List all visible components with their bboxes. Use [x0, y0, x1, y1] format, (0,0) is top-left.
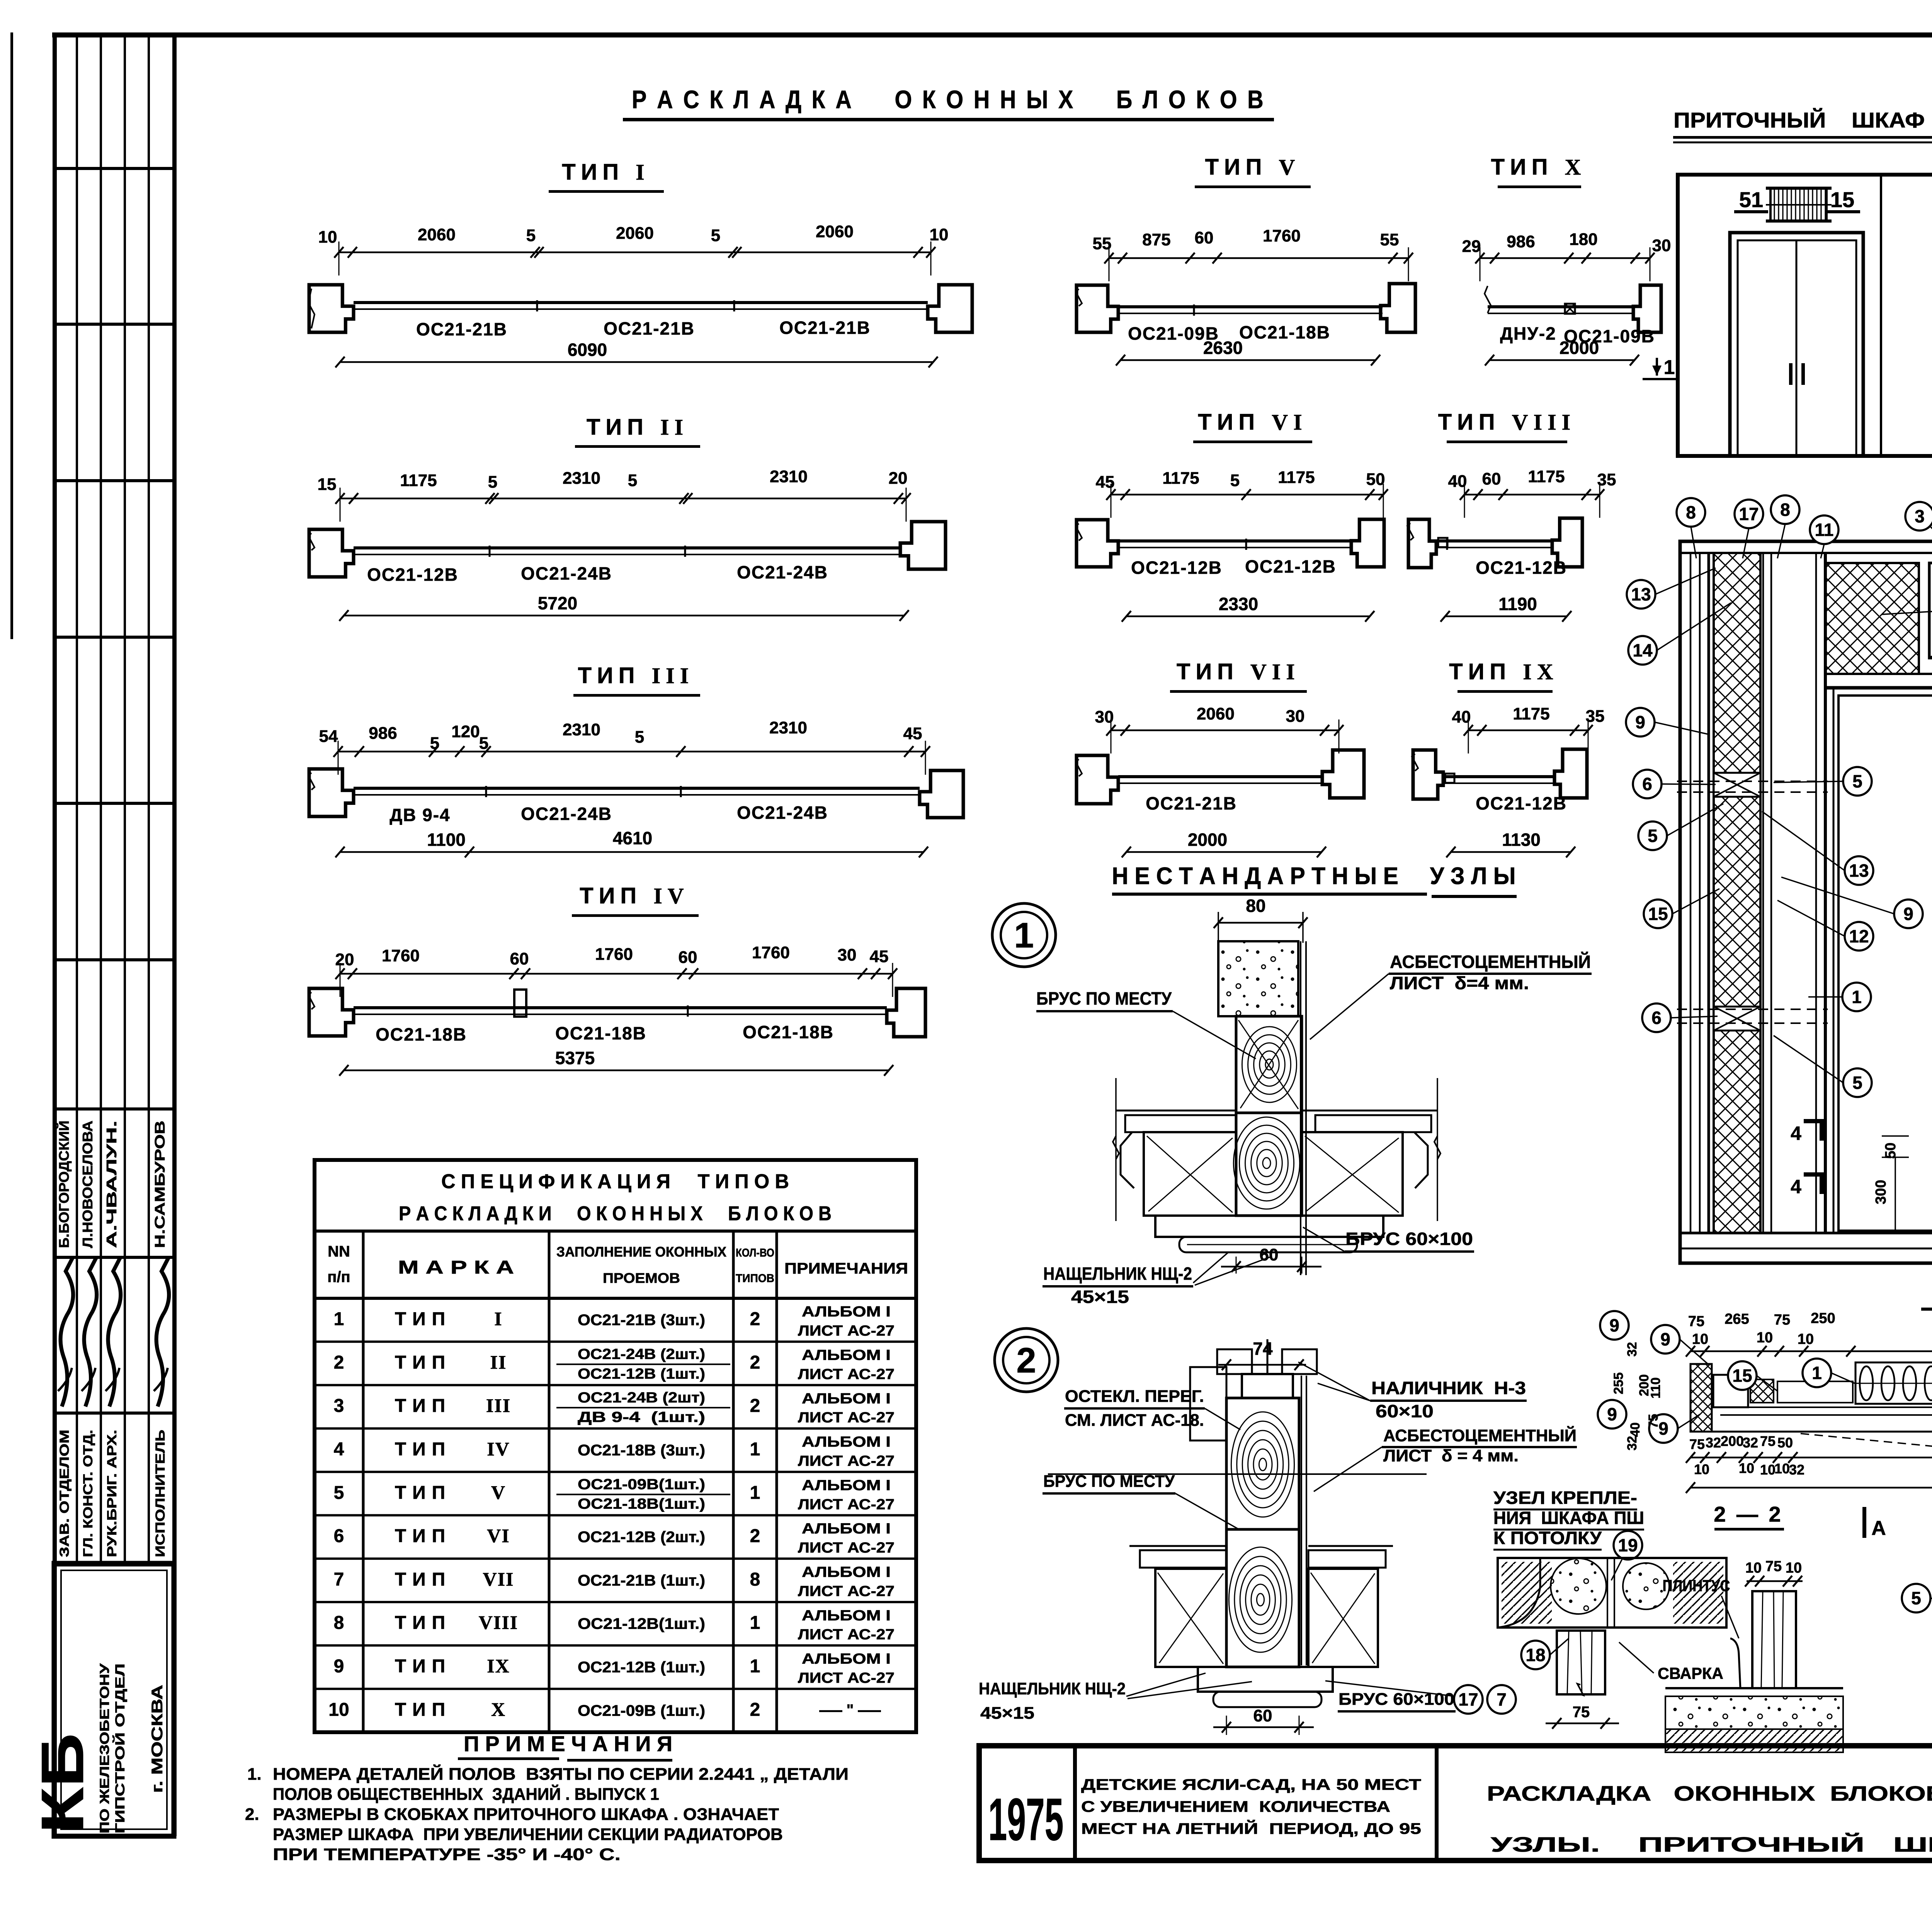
svg-text:ТИП: ТИП [395, 1699, 451, 1720]
svg-text:45: 45 [903, 724, 922, 743]
svg-text:ГЛ. КОНСТ. ОТД.: ГЛ. КОНСТ. ОТД. [81, 1430, 95, 1557]
svg-text:ОС21-18В: ОС21-18В [555, 1023, 646, 1043]
svg-text:10: 10 [1798, 1331, 1814, 1347]
svg-text:ОС21-21В: ОС21-21В [779, 318, 871, 338]
svg-text:ЛИСТ АС-27: ЛИСТ АС-27 [798, 1540, 895, 1556]
svg-text:13: 13 [1631, 584, 1651, 604]
svg-text:ТИП: ТИП [395, 1483, 451, 1503]
svg-text:НАЩЕЛЬНИК НЩ-2: НАЩЕЛЬНИК НЩ-2 [979, 1679, 1126, 1698]
svg-text:БРУС ПО МЕСТУ: БРУС ПО МЕСТУ [1036, 988, 1172, 1009]
svg-text:1975: 1975 [988, 1786, 1064, 1853]
svg-text:5: 5 [479, 734, 488, 753]
svg-text:5: 5 [334, 1483, 344, 1503]
svg-text:ЛИСТ АС-27: ЛИСТ АС-27 [798, 1323, 895, 1339]
svg-text:875: 875 [1142, 230, 1170, 249]
svg-text:2: 2 [750, 1699, 760, 1720]
svg-text:АЛЬБОМ I: АЛЬБОМ I [802, 1434, 891, 1450]
svg-text:ОС21-21В: ОС21-21В [604, 318, 695, 338]
svg-text:5: 5 [1648, 826, 1658, 846]
svg-text:ОС21-18В: ОС21-18В [376, 1024, 467, 1044]
svg-text:10: 10 [1745, 1560, 1762, 1576]
svg-text:ТИП: ТИП [395, 1569, 451, 1590]
svg-text:ОС21-24В (2шт.): ОС21-24В (2шт.) [578, 1346, 705, 1362]
svg-text:10: 10 [930, 225, 949, 244]
svg-text:54: 54 [319, 727, 338, 746]
svg-text:1.: 1. [247, 1765, 262, 1784]
svg-text:29: 29 [1462, 237, 1481, 256]
svg-text:1100: 1100 [427, 830, 466, 850]
svg-text:1760: 1760 [1263, 226, 1301, 245]
svg-text:ТИП: ТИП [395, 1613, 451, 1633]
svg-text:30: 30 [838, 946, 857, 964]
svg-text:VI: VI [487, 1525, 510, 1546]
svg-text:ЗАПОЛНЕНИЕ ОКОННЫХ: ЗАПОЛНЕНИЕ ОКОННЫХ [556, 1244, 726, 1260]
svg-text:986: 986 [1507, 232, 1535, 251]
svg-text:32: 32 [1625, 1342, 1639, 1357]
svg-text:1760: 1760 [752, 943, 790, 962]
svg-text:17: 17 [1458, 1689, 1478, 1709]
svg-text:ОСТЕКЛ. ПЕРЕГ.: ОСТЕКЛ. ПЕРЕГ. [1065, 1387, 1204, 1406]
svg-text:БРУС 60×100: БРУС 60×100 [1338, 1690, 1454, 1709]
svg-text:2: 2 [750, 1526, 760, 1546]
svg-text:ТИП VI: ТИП VI [1198, 410, 1307, 435]
svg-text:ТИП: ТИП [395, 1526, 451, 1546]
svg-text:1175: 1175 [1278, 468, 1315, 487]
svg-text:IX: IX [487, 1655, 510, 1677]
svg-text:110: 110 [1648, 1378, 1663, 1399]
svg-text:АСБЕСТОЦЕМЕНТНЫЙ: АСБЕСТОЦЕМЕНТНЫЙ [1383, 1425, 1577, 1445]
svg-text:120: 120 [451, 722, 480, 741]
svg-text:10: 10 [1692, 1331, 1708, 1347]
svg-text:1130: 1130 [1502, 830, 1541, 850]
svg-text:ЛИСТ АС-27: ЛИСТ АС-27 [798, 1583, 895, 1599]
svg-text:12: 12 [1849, 926, 1869, 946]
svg-text:1: 1 [750, 1439, 760, 1460]
svg-text:ТИП III: ТИП III [578, 663, 694, 688]
svg-text:ИСПОЛНИТЕЛЬ: ИСПОЛНИТЕЛЬ [153, 1430, 168, 1557]
svg-text:УЗЕЛ КРЕПЛЕ-: УЗЕЛ КРЕПЛЕ- [1493, 1488, 1637, 1508]
svg-text:ОС21-09В (1шт.): ОС21-09В (1шт.) [578, 1702, 705, 1719]
svg-text:ТИП X: ТИП X [1491, 155, 1587, 180]
svg-text:1190: 1190 [1498, 594, 1537, 614]
svg-text:АЛЬБОМ I: АЛЬБОМ I [802, 1477, 891, 1493]
svg-text:265: 265 [1725, 1311, 1749, 1327]
svg-text:ЛИСТ δ=4 мм.: ЛИСТ δ=4 мм. [1390, 973, 1529, 993]
svg-text:15: 15 [318, 475, 337, 494]
svg-text:17: 17 [1739, 504, 1759, 524]
svg-text:ДВ 9-4 (1шт.): ДВ 9-4 (1шт.) [578, 1409, 705, 1425]
svg-text:45×15: 45×15 [1071, 1287, 1129, 1307]
svg-text:3: 3 [334, 1396, 344, 1416]
svg-text:5: 5 [711, 226, 720, 245]
svg-text:74: 74 [1253, 1338, 1273, 1359]
svg-text:2330: 2330 [1219, 594, 1258, 614]
svg-text:ТИПОВ: ТИПОВ [736, 1272, 774, 1285]
svg-text:255: 255 [1611, 1372, 1626, 1395]
svg-text:5720: 5720 [538, 593, 577, 613]
svg-text:30: 30 [1652, 236, 1671, 255]
svg-text:10: 10 [1739, 1460, 1754, 1476]
svg-text:Б.БОГОРОДСКИЙ: Б.БОГОРОДСКИЙ [56, 1121, 72, 1248]
svg-text:2000: 2000 [1560, 338, 1599, 358]
svg-text:8: 8 [334, 1613, 344, 1633]
svg-text:2310: 2310 [770, 467, 808, 486]
svg-text:15: 15 [1648, 904, 1668, 924]
svg-text:5375: 5375 [555, 1048, 595, 1068]
svg-text:10: 10 [1694, 1461, 1709, 1477]
svg-text:2630: 2630 [1203, 338, 1243, 358]
svg-text:10: 10 [1786, 1560, 1802, 1576]
svg-text:V: V [491, 1481, 506, 1503]
svg-text:М А Р К А: М А Р К А [398, 1257, 514, 1278]
svg-text:1760: 1760 [382, 946, 420, 965]
svg-text:АЛЬБОМ I: АЛЬБОМ I [802, 1347, 891, 1363]
svg-text:1175: 1175 [400, 471, 437, 490]
svg-text:6: 6 [1651, 1008, 1662, 1028]
svg-text:ТИП: ТИП [395, 1396, 451, 1416]
svg-text:6: 6 [1642, 774, 1652, 794]
svg-text:NN: NN [328, 1243, 350, 1260]
svg-text:9: 9 [334, 1656, 344, 1677]
svg-text:Р А С К Л А Д К И О К О Н: Р А С К Л А Д К И О К О Н Н Ы Х Б Л О К … [399, 1202, 832, 1225]
svg-text:ОС21-21В: ОС21-21В [1146, 793, 1237, 813]
svg-text:200: 200 [1721, 1433, 1744, 1449]
svg-text:32: 32 [1789, 1462, 1804, 1478]
svg-text:5: 5 [1230, 471, 1240, 490]
svg-text:ОС21-09В(1шт.): ОС21-09В(1шт.) [578, 1476, 705, 1493]
svg-text:8: 8 [1780, 500, 1790, 520]
svg-text:1175: 1175 [1162, 469, 1199, 488]
svg-text:РАЗМЕР ШКАФА ПРИ УВЕЛИЧЕНИИ С: РАЗМЕР ШКАФА ПРИ УВЕЛИЧЕНИИ СЕКЦИИ РАДИА… [273, 1825, 783, 1844]
svg-text:50: 50 [1777, 1435, 1793, 1451]
svg-text:ОС21-18В (3шт.): ОС21-18В (3шт.) [578, 1442, 705, 1459]
svg-text:МЕСТ НА ЛЕТНИЙ ПЕРИОД, ДО 95: МЕСТ НА ЛЕТНИЙ ПЕРИОД, ДО 95 [1081, 1820, 1421, 1837]
svg-text:ДЕТСКИЕ ЯСЛИ-САД, НА 50 МЕСТ: ДЕТСКИЕ ЯСЛИ-САД, НА 50 МЕСТ [1081, 1776, 1421, 1793]
svg-text:ОС21-12В (1шт.): ОС21-12В (1шт.) [578, 1659, 705, 1676]
svg-text:75: 75 [1646, 1414, 1661, 1429]
svg-text:ОС21-12В(1шт.): ОС21-12В(1шт.) [578, 1616, 705, 1633]
svg-text:А: А [1871, 1517, 1886, 1539]
svg-text:6: 6 [334, 1526, 344, 1546]
svg-text:10: 10 [318, 228, 337, 247]
svg-text:9: 9 [1635, 712, 1645, 732]
svg-text:30: 30 [1286, 707, 1305, 726]
svg-text:ʺ: ʺ [847, 1701, 854, 1718]
svg-text:I: I [494, 1308, 502, 1330]
svg-text:5: 5 [1852, 1073, 1862, 1093]
svg-text:4: 4 [1791, 1122, 1801, 1144]
svg-text:986: 986 [369, 724, 397, 743]
svg-text:ТИП II: ТИП II [587, 415, 689, 440]
svg-text:10: 10 [1760, 1462, 1776, 1478]
svg-text:ОС21-24В: ОС21-24В [737, 803, 828, 823]
svg-text:2: 2 [1016, 1341, 1036, 1380]
svg-text:Н.САМБУРОВ: Н.САМБУРОВ [152, 1121, 168, 1248]
svg-text:III: III [486, 1395, 511, 1416]
svg-text:ДВ 9-4: ДВ 9-4 [389, 805, 450, 825]
svg-text:ГИПСТРОЙ ОТДЕЛ: ГИПСТРОЙ ОТДЕЛ [112, 1663, 128, 1833]
svg-text:ПРИ ТЕМПЕРАТУРЕ -35° И -40° С.: ПРИ ТЕМПЕРАТУРЕ -35° И -40° С. [273, 1845, 621, 1864]
svg-text:13: 13 [1849, 861, 1869, 881]
svg-text:ЛИСТ АС-27: ЛИСТ АС-27 [798, 1366, 895, 1383]
svg-text:НОМЕРА ДЕТАЛЕЙ ПОЛОВ ВЗЯТЫ ПО: НОМЕРА ДЕТАЛЕЙ ПОЛОВ ВЗЯТЫ ПО СЕРИИ 2.24… [273, 1764, 849, 1784]
svg-text:А.ЧВАЛУН.: А.ЧВАЛУН. [104, 1121, 119, 1248]
svg-text:8: 8 [1686, 502, 1696, 522]
svg-text:ТИП VIII: ТИП VIII [1438, 410, 1576, 435]
svg-text:1: 1 [334, 1309, 344, 1330]
svg-text:5: 5 [635, 728, 644, 747]
svg-text:ТИП: ТИП [395, 1656, 451, 1677]
svg-text:300: 300 [1873, 1180, 1889, 1204]
svg-text:75: 75 [1573, 1704, 1590, 1721]
svg-text:РАСКЛАДКА ОКОННЫХ БЛОКОВ.: РАСКЛАДКА ОКОННЫХ БЛОКОВ. НЕСТАНДАРТНЫЕ [1487, 1782, 1932, 1805]
svg-text:45: 45 [1096, 473, 1115, 492]
svg-text:ОС21-24В: ОС21-24В [521, 563, 612, 583]
svg-text:10: 10 [1774, 1461, 1790, 1476]
svg-text:8: 8 [750, 1569, 760, 1590]
svg-text:2060: 2060 [418, 225, 456, 244]
svg-text:1: 1 [750, 1656, 760, 1677]
svg-text:НАЛИЧНИК Н-3: НАЛИЧНИК Н-3 [1371, 1378, 1526, 1398]
svg-text:ОС21-12В: ОС21-12В [1476, 558, 1567, 578]
svg-text:5: 5 [628, 471, 637, 490]
svg-text:ОС21-12В (1шт.): ОС21-12В (1шт.) [578, 1366, 705, 1382]
svg-text:ТИП IV: ТИП IV [580, 883, 689, 908]
svg-text:2310: 2310 [563, 469, 600, 488]
svg-text:32: 32 [1743, 1435, 1758, 1451]
svg-text:60: 60 [510, 949, 529, 968]
svg-text:ОС21-12В: ОС21-12В [1245, 556, 1336, 577]
svg-text:С УВЕЛИЧЕНИЕМ КОЛИЧЕСТВА: С УВЕЛИЧЕНИЕМ КОЛИЧЕСТВА [1081, 1798, 1390, 1815]
svg-text:2: 2 [750, 1352, 760, 1373]
svg-text:П Р И М Е Ч А Н И Я: П Р И М Е Ч А Н И Я [464, 1731, 672, 1756]
svg-text:ПО ЖЕЛЕЗОБЕТОНУ: ПО ЖЕЛЕЗОБЕТОНУ [97, 1663, 112, 1833]
svg-text:ЗАВ. ОТДЕЛОМ: ЗАВ. ОТДЕЛОМ [57, 1430, 72, 1557]
svg-text:ОС21-12В: ОС21-12В [1476, 793, 1567, 813]
svg-text:ПРИТОЧНЫЙ ШКАФ ПШ: ПРИТОЧНЫЙ ШКАФ ПШ [1673, 108, 1932, 132]
svg-text:5: 5 [488, 473, 497, 492]
svg-text:ЛИСТ АС-27: ЛИСТ АС-27 [798, 1670, 895, 1686]
svg-text:ОС21-21В (3шт.): ОС21-21В (3шт.) [578, 1312, 705, 1329]
svg-text:НАЩЕЛЬНИК НЩ-2: НАЩЕЛЬНИК НЩ-2 [1043, 1264, 1192, 1284]
svg-text:11: 11 [1815, 520, 1834, 540]
svg-text:п/п: п/п [327, 1269, 350, 1286]
svg-text:180: 180 [1569, 230, 1597, 249]
svg-text:60: 60 [1195, 228, 1214, 247]
svg-text:15: 15 [1732, 1366, 1752, 1386]
svg-text:АЛЬБОМ I: АЛЬБОМ I [802, 1564, 891, 1580]
svg-text:1: 1 [750, 1613, 760, 1633]
svg-text:9: 9 [1609, 1315, 1619, 1335]
svg-text:9: 9 [1903, 904, 1913, 924]
svg-text:г. МОСКВА: г. МОСКВА [149, 1685, 166, 1793]
svg-text:2310: 2310 [563, 720, 600, 739]
svg-text:ОС21-21В (1шт.): ОС21-21В (1шт.) [578, 1572, 705, 1589]
svg-text:5: 5 [430, 734, 439, 753]
svg-text:80: 80 [1246, 896, 1265, 916]
svg-text:32: 32 [1706, 1435, 1721, 1451]
svg-text:IV: IV [487, 1438, 510, 1460]
svg-text:VIII: VIII [479, 1612, 518, 1633]
svg-text:К ПОТОЛКУ: К ПОТОЛКУ [1493, 1528, 1602, 1548]
svg-text:50: 50 [1883, 1143, 1899, 1159]
svg-text:КОЛ-ВО: КОЛ-ВО [736, 1247, 774, 1259]
svg-text:55: 55 [1380, 230, 1399, 249]
svg-text:ТИП IX: ТИП IX [1449, 659, 1558, 684]
svg-text:ТИП: ТИП [395, 1352, 451, 1373]
svg-text:40: 40 [1628, 1422, 1643, 1437]
svg-text:ЛИСТ АС-27: ЛИСТ АС-27 [798, 1453, 895, 1469]
svg-text:2310: 2310 [769, 718, 807, 737]
svg-text:1175: 1175 [1528, 467, 1565, 486]
svg-text:ТИП I: ТИП I [562, 160, 650, 185]
svg-text:1: 1 [750, 1483, 760, 1503]
svg-text:ОС21-18В(1шт.): ОС21-18В(1шт.) [578, 1496, 705, 1512]
svg-text:ЛИСТ АС-27: ЛИСТ АС-27 [798, 1497, 895, 1513]
svg-text:45: 45 [870, 947, 889, 966]
svg-text:ПОЛОВ ОБЩЕСТВЕННЫХ ЗДАНИЙ . В: ПОЛОВ ОБЩЕСТВЕННЫХ ЗДАНИЙ . ВЫПУСК 1 [273, 1784, 659, 1804]
svg-text:75: 75 [1765, 1558, 1782, 1575]
svg-text:ЛИСТ АС-27: ЛИСТ АС-27 [798, 1410, 895, 1426]
svg-text:10: 10 [1757, 1330, 1773, 1346]
svg-text:50: 50 [1366, 470, 1385, 489]
svg-text:2000: 2000 [1188, 830, 1227, 850]
svg-text:2: 2 [750, 1396, 760, 1416]
svg-text:РАЗМЕРЫ В СКОБКАХ ПРИТОЧНОГО Ш: РАЗМЕРЫ В СКОБКАХ ПРИТОЧНОГО ШКАФА . ОЗН… [273, 1805, 779, 1824]
svg-text:УЗЛЫ. ПРИТОЧНЫЙ ШКАФ ПШ.: УЗЛЫ. ПРИТОЧНЫЙ ШКАФ ПШ. [1491, 1833, 1932, 1856]
svg-text:2.: 2. [245, 1805, 259, 1824]
svg-text:НИЯ ШКАФА ПШ: НИЯ ШКАФА ПШ [1493, 1508, 1644, 1528]
svg-text:75: 75 [1689, 1436, 1705, 1452]
svg-text:ОС21-24В (2шт): ОС21-24В (2шт) [578, 1390, 705, 1406]
svg-text:60: 60 [679, 948, 697, 967]
svg-text:ТИП: ТИП [395, 1439, 451, 1460]
svg-text:ТИП V: ТИП V [1205, 155, 1301, 180]
svg-text:АЛЬБОМ I: АЛЬБОМ I [802, 1304, 891, 1320]
svg-text:6090: 6090 [568, 340, 607, 360]
svg-text:7: 7 [1497, 1689, 1507, 1709]
svg-text:5: 5 [526, 226, 536, 245]
svg-text:ОС21-12В (2шт.): ОС21-12В (2шт.) [578, 1529, 705, 1546]
svg-text:ОС21-21В: ОС21-21В [416, 319, 507, 339]
svg-text:СМ. ЛИСТ АС-18.: СМ. ЛИСТ АС-18. [1065, 1411, 1204, 1430]
svg-text:75: 75 [1760, 1433, 1776, 1449]
svg-text:С П Е Ц И Ф И К А Ц И Я Т: С П Е Ц И Ф И К А Ц И Я Т И П О В [441, 1170, 789, 1193]
svg-text:1: 1 [1812, 1363, 1822, 1383]
svg-text:ОС21-18В: ОС21-18В [743, 1022, 834, 1042]
svg-text:5: 5 [1911, 1588, 1921, 1608]
svg-text:32: 32 [1625, 1436, 1639, 1451]
svg-text:БРУС 60×100: БРУС 60×100 [1345, 1229, 1473, 1249]
svg-text:КБ: КБ [29, 1733, 96, 1833]
svg-text:60: 60 [1482, 469, 1501, 488]
svg-text:20: 20 [335, 950, 354, 969]
svg-text:2: 2 [334, 1352, 344, 1373]
svg-text:60×10: 60×10 [1376, 1401, 1434, 1421]
svg-text:20: 20 [889, 469, 908, 488]
svg-text:15: 15 [1830, 187, 1854, 212]
svg-text:1760: 1760 [595, 945, 633, 964]
svg-text:14: 14 [1633, 640, 1653, 660]
svg-text:51: 51 [1739, 187, 1763, 212]
svg-text:9: 9 [1660, 1329, 1670, 1349]
svg-text:3: 3 [1915, 506, 1925, 526]
svg-text:X: X [491, 1698, 506, 1720]
svg-text:4610: 4610 [613, 828, 652, 848]
svg-text:ПРОЕМОВ: ПРОЕМОВ [603, 1270, 680, 1286]
svg-text:60: 60 [1253, 1706, 1272, 1725]
svg-text:Р А С К Л А Д К А О К О Н: Р А С К Л А Д К А О К О Н Н Ы Х Б Л О К … [632, 85, 1265, 114]
svg-text:75: 75 [1688, 1313, 1704, 1330]
svg-text:2060: 2060 [1197, 704, 1235, 723]
svg-text:II: II [490, 1351, 507, 1373]
svg-text:1: 1 [1014, 916, 1034, 955]
svg-text:РУК.БРИГ. АРХ.: РУК.БРИГ. АРХ. [105, 1430, 119, 1557]
svg-text:АЛЬБОМ I: АЛЬБОМ I [802, 1521, 891, 1537]
svg-text:СВАРКА: СВАРКА [1658, 1664, 1723, 1682]
svg-text:АЛЬБОМ I: АЛЬБОМ I [802, 1607, 891, 1624]
svg-text:ДНУ-2: ДНУ-2 [1500, 323, 1556, 344]
svg-text:1: 1 [1852, 987, 1862, 1007]
svg-text:4: 4 [334, 1439, 344, 1460]
svg-text:2060: 2060 [816, 222, 854, 241]
svg-text:VII: VII [483, 1568, 514, 1590]
svg-text:9: 9 [1607, 1404, 1617, 1424]
svg-text:Л.НОВОСЕЛОВА: Л.НОВОСЕЛОВА [80, 1121, 95, 1248]
svg-text:18: 18 [1526, 1645, 1545, 1665]
svg-text:ОС21-12В: ОС21-12В [1131, 558, 1222, 578]
svg-text:ТИП: ТИП [395, 1309, 451, 1330]
svg-text:ОС21-18В: ОС21-18В [1239, 322, 1330, 342]
svg-text:ОС21-24В: ОС21-24В [737, 562, 828, 582]
svg-text:Н Е С Т А Н Д А Р Т Н Ы Е: Н Е С Т А Н Д А Р Т Н Ы Е У З Л Ы [1112, 863, 1516, 889]
svg-text:45×15: 45×15 [980, 1704, 1034, 1723]
svg-text:1175: 1175 [1513, 704, 1549, 723]
svg-text:АЛЬБОМ I: АЛЬБОМ I [802, 1651, 891, 1667]
svg-text:5: 5 [1852, 771, 1862, 791]
svg-text:60: 60 [1260, 1245, 1279, 1264]
svg-text:БРУС ПО МЕСТУ: БРУС ПО МЕСТУ [1043, 1472, 1175, 1491]
svg-text:7: 7 [334, 1569, 344, 1590]
svg-text:ТИП VII: ТИП VII [1177, 659, 1300, 684]
svg-text:75: 75 [1774, 1312, 1790, 1328]
svg-text:ЛИСТ δ = 4 мм.: ЛИСТ δ = 4 мм. [1383, 1446, 1519, 1465]
svg-text:2060: 2060 [616, 224, 654, 243]
svg-text:19: 19 [1618, 1535, 1638, 1555]
svg-text:ЛИСТ АС-27: ЛИСТ АС-27 [798, 1627, 895, 1643]
svg-text:ОС21-24В: ОС21-24В [521, 804, 612, 824]
svg-text:2: 2 [750, 1309, 760, 1330]
svg-text:1: 1 [1664, 356, 1675, 379]
svg-text:ПРИМЕЧАНИЯ: ПРИМЕЧАНИЯ [784, 1260, 908, 1277]
svg-text:2 — 2: 2 — 2 [1714, 1502, 1783, 1526]
svg-text:10: 10 [328, 1699, 349, 1720]
svg-text:ОС21-12В: ОС21-12В [367, 565, 458, 585]
svg-text:АСБЕСТОЦЕМЕНТНЫЙ: АСБЕСТОЦЕМЕНТНЫЙ [1390, 952, 1591, 972]
svg-text:АЛЬБОМ I: АЛЬБОМ I [802, 1391, 891, 1407]
svg-text:250: 250 [1811, 1310, 1835, 1327]
svg-text:4: 4 [1791, 1176, 1801, 1197]
